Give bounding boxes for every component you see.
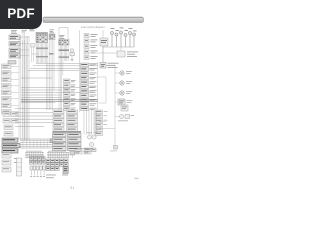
mega bundle ticks — [23, 139, 48, 148]
meter header strip — [53, 131, 82, 133]
gauge labels — [87, 133, 98, 150]
connector CN1 pin text — [10, 36, 18, 57]
bottom-left connector text — [4, 113, 17, 133]
footer left text — [3, 154, 20, 169]
svg-text:Index (wiring diagram): Index (wiring diagram) — [81, 26, 105, 29]
PDF badge — [0, 0, 42, 29]
pin table T2a — [49, 34, 55, 40]
wires left devices to bus — [11, 66, 19, 112]
gauge sub chips — [85, 148, 97, 152]
vertical bus lines — [19, 36, 26, 140]
oil switch inner — [101, 64, 105, 67]
pin table T1 — [36, 33, 48, 43]
breaker box B1 — [100, 38, 108, 46]
divider line mid — [79, 62, 81, 112]
bundle labels — [26, 150, 66, 153]
gauge sub chip specks — [85, 148, 95, 151]
relay RL1 — [117, 51, 125, 57]
vertical bus lines left — [23, 33, 29, 140]
connector cluster C mid — [95, 110, 103, 136]
harness group 2a label — [50, 30, 55, 34]
bus label specks — [22, 27, 28, 33]
temp sensor stub — [115, 101, 118, 103]
bundle row 2 end chip — [70, 151, 75, 155]
legend list L1 — [84, 34, 98, 60]
cluster C side specks — [104, 111, 108, 125]
footer junction grid 1 — [30, 157, 46, 165]
harness bundle row 2 — [25, 153, 69, 158]
horn labels — [118, 115, 134, 121]
grid 1 specks — [30, 158, 44, 163]
combination meter block — [53, 133, 82, 151]
dark terminal block TB1 — [2, 138, 20, 153]
footer page wire — [72, 154, 74, 158]
footer faint text — [110, 150, 117, 153]
pin row boxes — [30, 166, 45, 170]
connector CN1 label — [11, 30, 17, 34]
lamp chain stubs — [115, 73, 120, 93]
switch SW1 — [70, 49, 75, 56]
combination meter text — [54, 134, 79, 149]
trunk wire right — [106, 66, 115, 146]
breaker box text — [101, 40, 107, 43]
wires CN1 to bus — [20, 37, 29, 56]
horn unit H1 — [120, 115, 130, 119]
flasher text — [122, 107, 127, 109]
lamp chain inner circles — [121, 72, 123, 94]
divider line left — [79, 30, 81, 62]
pin table T2b — [59, 40, 70, 46]
harness group 2b label — [60, 35, 65, 39]
harness group label — [30, 28, 35, 32]
temp sensor labels — [127, 100, 133, 103]
jog wire — [98, 77, 106, 103]
oil switch S2 — [100, 63, 106, 69]
header title bar — [43, 17, 144, 23]
gauge lamps G1 G2 G3 — [87, 135, 96, 147]
bottom-left connector boxes — [3, 112, 18, 136]
ECU pin list column B — [81, 63, 97, 111]
connector CN1 strip — [8, 61, 16, 65]
mid-bottom pin columns — [53, 110, 78, 131]
footer tall connector rows — [17, 163, 22, 172]
footer tall connector frame — [17, 158, 22, 176]
bundle row 2 ticks — [27, 152, 68, 158]
wire cluster to trunk — [99, 121, 115, 128]
main harness bundle vertical wires — [32, 43, 48, 111]
indicator lamp chain — [120, 71, 124, 95]
footer wire — [78, 151, 96, 153]
grid 2 dark box — [63, 167, 68, 174]
trunk terminal — [114, 146, 118, 150]
connector CN1 — [9, 35, 20, 58]
pin row stems — [31, 170, 44, 176]
lamp labels — [111, 28, 137, 32]
footer marks — [46, 175, 68, 179]
horizontal trunk wires — [21, 64, 98, 103]
bottom-right faint mark — [135, 178, 139, 179]
footer junction grid 2 — [46, 159, 68, 170]
bundle 2a tie — [49, 53, 54, 54]
pin row feet — [30, 175, 45, 178]
feed wire pair — [21, 100, 98, 102]
vertical wires center-bottom — [84, 110, 97, 135]
divider line right — [102, 30, 104, 62]
lamp row — [110, 31, 135, 47]
svg-text:31: 31 — [70, 185, 75, 190]
bundle 2b wires — [59, 45, 68, 110]
ECU pin list column A — [64, 79, 76, 110]
page number — [70, 185, 75, 190]
TB1 text — [3, 139, 17, 151]
loop wire — [59, 28, 68, 40]
grid 2 specks — [47, 160, 67, 171]
relay RL1 labels — [127, 52, 138, 57]
flasher unit F1 — [121, 105, 128, 111]
wires bottom-left — [15, 108, 62, 126]
footer connector boxes — [75, 150, 91, 154]
footer left column — [2, 153, 11, 172]
bundle 2a wires — [50, 40, 55, 111]
junction boxes — [31, 44, 36, 48]
oil switch labels — [108, 63, 119, 68]
section title text — [81, 26, 105, 29]
temp sensor box — [118, 99, 125, 105]
lamp row bus — [102, 46, 134, 48]
left device column text — [3, 65, 10, 113]
wire lamp bus down — [96, 47, 121, 66]
lamp chain labels — [126, 71, 132, 94]
PDF badge label — [0, 0, 42, 28]
horn wire — [115, 116, 120, 118]
branch wire — [32, 53, 39, 55]
T2b specks — [59, 40, 68, 44]
main harness horizontal bundle — [20, 139, 52, 148]
bundle tag chip — [50, 139, 55, 143]
bundle tie J1 — [36, 48, 48, 58]
T2a specks — [50, 35, 55, 39]
temp sensor inner — [119, 101, 124, 104]
bundle 2b tie — [59, 50, 70, 58]
footer connector text — [75, 149, 93, 154]
ground G1 — [70, 56, 73, 61]
left device column D1..D8 — [2, 64, 12, 114]
divider line right mid — [97, 62, 99, 112]
